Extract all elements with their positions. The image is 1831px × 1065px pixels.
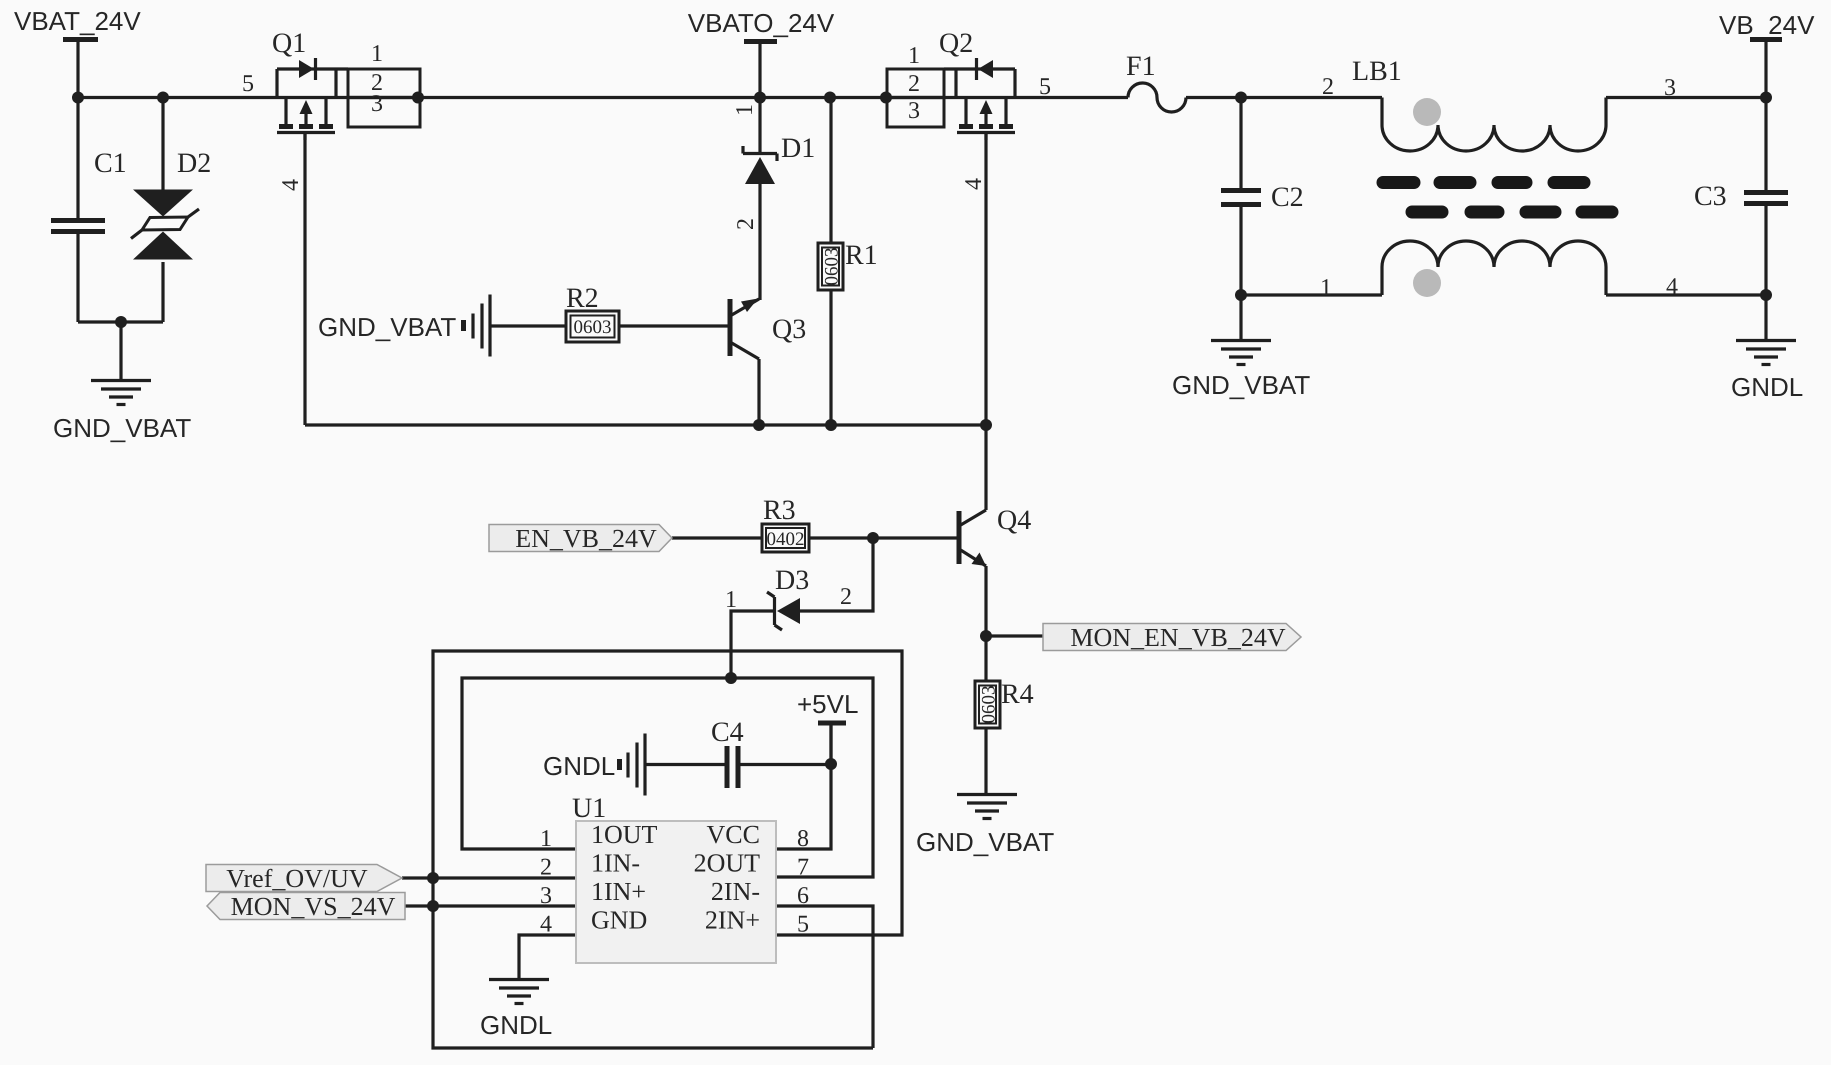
resistor R2 [566, 283, 619, 342]
svg-text:5: 5 [797, 912, 809, 938]
svg-text:R2: R2 [566, 283, 599, 314]
wire Q2 gate [984, 134, 987, 425]
wire Q4 emitter to MON tag [986, 634, 1043, 637]
svg-text:GND_VBAT: GND_VBAT [916, 827, 1054, 857]
junction D2 / bus [157, 92, 169, 104]
junction Q1 box / bus [412, 92, 424, 104]
junction Q2 gate / rail / Q4 [980, 419, 992, 431]
svg-text:D2: D2 [177, 148, 211, 179]
junction R1 / gate rail [825, 419, 837, 431]
wire LB1 pin4 to C3 rail [1606, 293, 1766, 296]
junction Q4 emitter / MON tag / R4 [980, 630, 992, 642]
svg-text:1: 1 [371, 41, 383, 67]
svg-text:GND_VBAT: GND_VBAT [318, 312, 456, 342]
wire MON_VS tag to pin3 [405, 904, 576, 907]
svg-text:Q4: Q4 [997, 505, 1031, 536]
zener diode D3 [725, 565, 852, 630]
wire pin8 VCC to +5VL [776, 724, 831, 849]
svg-text:1IN+: 1IN+ [591, 877, 646, 906]
wire Vref tag to pin2 [402, 876, 576, 879]
wire gate rail Q1-Q2 [305, 423, 986, 426]
wire 2IN- riser [776, 906, 873, 1048]
svg-text:GND_VBAT: GND_VBAT [1172, 370, 1310, 400]
power bar GND_VBAT at R2 [318, 295, 490, 357]
svg-text:2IN+: 2IN+ [705, 906, 760, 935]
svg-text:4: 4 [278, 179, 304, 191]
svg-text:R3: R3 [763, 495, 796, 526]
svg-text:2OUT: 2OUT [694, 849, 761, 878]
junction LB1 pin3 / VB rail [1760, 92, 1772, 104]
resistor R1 [818, 98, 878, 426]
power flag VBATO_24V [688, 8, 835, 98]
svg-text:1: 1 [732, 104, 758, 116]
transistor Q4 (NPN) [959, 505, 1031, 636]
svg-text:C2: C2 [1271, 182, 1304, 213]
svg-text:Q2: Q2 [939, 28, 973, 59]
op-amp U1 (dual comparator) [540, 793, 809, 963]
junction D3 / inner loop [725, 672, 737, 684]
svg-text:GNDL: GNDL [480, 1010, 552, 1040]
wire D3 pin2 riser [800, 538, 873, 611]
fuse F1 [1126, 51, 1186, 112]
wire GNDL bar to C4 [646, 763, 726, 766]
svg-text:Q1: Q1 [272, 28, 306, 59]
svg-text:8: 8 [797, 826, 809, 852]
svg-text:MON_EN_VB_24V: MON_EN_VB_24V [1070, 623, 1285, 652]
junction VBATO stub / bus [754, 92, 766, 104]
svg-text:6: 6 [797, 883, 809, 909]
svg-text:7: 7 [797, 855, 809, 881]
svg-text:VBAT_24V: VBAT_24V [14, 6, 141, 36]
svg-text:C1: C1 [94, 148, 127, 179]
capacitor C3 [1694, 98, 1788, 296]
junction VBAT stub / bus [72, 92, 84, 104]
svg-text:GNDL: GNDL [543, 751, 615, 781]
ground GNDL below U1 pin4 [480, 980, 552, 1041]
junction R1 / bus [824, 92, 836, 104]
svg-text:0603: 0603 [978, 686, 999, 724]
wire C1 D2 bottom [78, 322, 163, 379]
svg-text:1: 1 [1320, 275, 1332, 301]
wire Q4 emitter to R4 [984, 636, 987, 681]
svg-text:1IN-: 1IN- [591, 849, 640, 878]
svg-text:5: 5 [1039, 74, 1051, 100]
TVS diode D2 [131, 98, 211, 323]
svg-text:1: 1 [908, 43, 920, 69]
power bar GNDL at C4 [543, 734, 645, 796]
wire outer loop 2IN+ top [433, 651, 902, 1048]
wire C4 to VCC riser [737, 763, 831, 766]
svg-text:Q3: Q3 [772, 314, 806, 345]
power flag VBAT_24V [14, 6, 141, 98]
svg-text:R1: R1 [845, 240, 878, 271]
junction C1 / D2 bottom [115, 316, 127, 328]
junction C2 / LB1 pin1 / ground [1235, 289, 1247, 301]
wire EN_VB_24V to R3 [672, 536, 762, 539]
ground GND_VBAT below C2 [1172, 341, 1310, 401]
transistor Q3 (NPN) [730, 299, 806, 426]
svg-text:2: 2 [540, 855, 552, 881]
transistor Q1 (P-MOSFET) [242, 28, 420, 191]
svg-text:1: 1 [540, 826, 552, 852]
svg-text:2: 2 [840, 584, 852, 610]
svg-text:D1: D1 [781, 133, 815, 164]
wire main bus VBAT to fuse [78, 96, 1128, 99]
svg-text:EN_VB_24V: EN_VB_24V [515, 524, 657, 553]
svg-text:4: 4 [1666, 274, 1678, 300]
svg-text:C3: C3 [1694, 181, 1727, 212]
wire LB1 pin3 to VB rail [1606, 96, 1766, 99]
svg-text:5: 5 [242, 71, 254, 97]
zener diode D1 [732, 98, 815, 301]
svg-text:VBATO_24V: VBATO_24V [688, 8, 835, 38]
wire R2 ground bar to R2 [490, 324, 566, 327]
net label EN_VB_24V [489, 524, 672, 553]
svg-text:1OUT: 1OUT [591, 820, 658, 849]
resistor R4 [975, 679, 1034, 728]
svg-text:2: 2 [908, 71, 920, 97]
junction MON_VS wire / outer loop [427, 900, 439, 912]
svg-text:2: 2 [1322, 74, 1334, 100]
wire R3 to Q4 base [809, 536, 959, 539]
net label MON_VS_24V [207, 892, 405, 921]
wire C2 ground stub [1239, 295, 1242, 339]
svg-text:VCC: VCC [707, 820, 760, 849]
svg-text:GNDL: GNDL [1731, 372, 1803, 402]
svg-text:0603: 0603 [574, 317, 612, 338]
svg-text:2: 2 [733, 218, 759, 230]
capacitor C2 [1221, 98, 1304, 296]
capacitor C1 [51, 98, 127, 323]
wire inner loop 1OUT to 2OUT [462, 678, 873, 877]
wire Q1 gate [303, 134, 306, 425]
svg-text:1: 1 [725, 587, 737, 613]
ground GNDL below C3 [1731, 341, 1803, 403]
junction C4 / +5VL / VCC [825, 758, 837, 770]
svg-text:3: 3 [540, 883, 552, 909]
svg-text:3: 3 [1664, 75, 1676, 101]
svg-text:4: 4 [961, 178, 987, 190]
power flag VB_24V [1719, 10, 1815, 98]
svg-text:+5VL: +5VL [797, 689, 858, 719]
wire fuse to LB1 pin2 [1186, 96, 1382, 99]
wire pin4 to GNDL [519, 935, 576, 978]
junction LB1 pin4 / C3 / ground [1760, 289, 1772, 301]
svg-text:LB1: LB1 [1352, 56, 1402, 87]
svg-text:0603: 0603 [821, 248, 842, 286]
svg-text:Vref_OV/UV: Vref_OV/UV [226, 864, 368, 893]
wire D3 pin1 to inner loop [731, 611, 773, 678]
ground GND_VBAT below R4 [916, 795, 1054, 858]
resistor R3 [762, 495, 809, 552]
svg-text:GND: GND [591, 906, 647, 935]
wire R2 to Q3 base [619, 324, 730, 327]
wire C2 to LB1 pin1 [1241, 293, 1382, 296]
wire R4 to ground [984, 728, 987, 793]
junction R3 / D3 / Q4 base [867, 532, 879, 544]
wire Q2 gate rail to Q4 collector [984, 425, 987, 510]
svg-text:GND_VBAT: GND_VBAT [53, 413, 191, 443]
svg-text:F1: F1 [1126, 51, 1156, 82]
transistor Q2 (P-MOSFET mirrored) [887, 28, 1051, 190]
svg-text:3: 3 [371, 91, 383, 117]
wire C3 bottom rail [1764, 295, 1767, 339]
svg-text:MON_VS_24V: MON_VS_24V [231, 892, 396, 921]
svg-text:R4: R4 [1001, 679, 1034, 710]
svg-text:4: 4 [540, 912, 552, 938]
junction F1 / C2 [1235, 92, 1247, 104]
svg-text:2IN-: 2IN- [711, 877, 760, 906]
capacitor C4 [711, 717, 744, 788]
ground GND_VBAT below C1/D2 [53, 381, 191, 444]
net label Vref_OV/UV [206, 864, 402, 893]
net label MON_EN_VB_24V [1043, 623, 1301, 652]
svg-text:VB_24V: VB_24V [1719, 10, 1815, 40]
svg-text:3: 3 [908, 98, 920, 124]
junction Q2 box / bus [880, 92, 892, 104]
junction Vref wire / outer loop [427, 872, 439, 884]
svg-text:0402: 0402 [767, 529, 805, 550]
inductor LB1 (common-mode choke) [1320, 56, 1678, 301]
svg-text:D3: D3 [775, 565, 809, 596]
svg-text:C4: C4 [711, 717, 744, 748]
power flag +5VL [797, 689, 858, 764]
junction Q3 emitter / gate rail [753, 419, 765, 431]
